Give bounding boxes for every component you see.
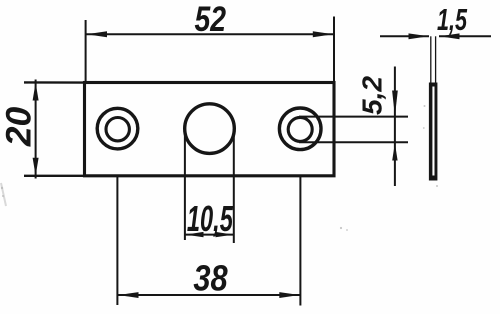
svg-text:10,5: 10,5 xyxy=(187,198,233,239)
extension line bottom edge left (for 20) xyxy=(24,175,86,177)
svg-text:5,2: 5,2 xyxy=(357,75,388,115)
extension line top edge left (for 20) xyxy=(24,81,86,84)
extension line 10,5 left tangent xyxy=(184,129,186,240)
dimension line 1,5 left segment xyxy=(380,35,429,37)
extension line 38 left xyxy=(116,176,118,305)
arrow 20 top xyxy=(33,83,39,101)
dimension line 5,2 vertical xyxy=(394,67,396,187)
extension line 5,2 top tangent xyxy=(299,116,408,118)
svg-text:20: 20 xyxy=(0,106,39,147)
faint smudge left edge xyxy=(1,183,6,206)
dimension line 1,5 right segment xyxy=(439,35,491,37)
dimension line 10,5 xyxy=(185,234,234,236)
extension line side view left edge up xyxy=(430,36,432,84)
dimension line 38 xyxy=(117,294,300,296)
arrow 38 left xyxy=(118,292,138,298)
arrow 1,5 left (pointing right) xyxy=(409,33,429,39)
plate front view outline xyxy=(85,83,335,176)
scan speckles xyxy=(1,105,438,231)
arrow 10,5 left xyxy=(186,232,204,237)
extension line 38 right xyxy=(299,176,301,306)
arrow 1,5 right (pointing left) xyxy=(440,33,460,39)
hole right inner circle xyxy=(288,117,312,141)
hole middle circle xyxy=(185,104,235,154)
arrow 38 right xyxy=(279,292,299,298)
arrow 20 bottom xyxy=(33,158,39,176)
extension line 5,2 bottom tangent xyxy=(299,141,408,143)
hole right outer circle (countersink) xyxy=(279,108,321,150)
extension line side view right edge up xyxy=(435,36,437,84)
extension line 52 left xyxy=(85,20,87,82)
arrow 10,5 right xyxy=(216,232,234,237)
svg-text:38: 38 xyxy=(193,258,228,299)
side view plate body xyxy=(429,83,438,181)
hole left outer circle (countersink) xyxy=(97,108,138,149)
arrow 5,2 upper xyxy=(392,91,398,117)
arrow 52 right xyxy=(313,31,333,37)
dimension line 52 xyxy=(86,33,334,35)
side view plate inner face xyxy=(432,87,434,176)
svg-text:1,5: 1,5 xyxy=(437,2,468,37)
arrow 52 left xyxy=(87,31,108,37)
hole left inner circle xyxy=(106,118,129,141)
dimension line 20 vertical xyxy=(35,80,37,179)
extension line 10,5 right tangent xyxy=(233,129,235,243)
extension line 52 right xyxy=(333,17,335,83)
arrow 5,2 lower xyxy=(392,143,397,161)
svg-text:52: 52 xyxy=(195,0,227,39)
